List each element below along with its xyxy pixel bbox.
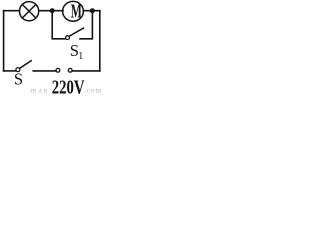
junction node dot left <box>50 8 55 13</box>
svg-text:220V: 220V <box>52 77 85 94</box>
svg-text:man: man <box>31 86 50 95</box>
svg-text:S: S <box>14 70 23 89</box>
switch S blade <box>20 60 32 68</box>
wire left vertical <box>3 11 5 71</box>
switch S pivot circle <box>16 68 20 72</box>
svg-text:M: M <box>71 2 82 23</box>
wire top middle (lamp to motor through node) <box>39 10 63 12</box>
lamp EL1 (circle with X) <box>20 2 39 21</box>
motor circle <box>63 1 84 21</box>
junction node dot right <box>90 8 95 13</box>
wire bottom right <box>72 70 100 72</box>
wire bottom middle (between S and terminal) <box>33 70 56 72</box>
wire top right (motor to corner through node) <box>83 10 100 12</box>
source terminal circle right <box>68 68 72 72</box>
wire bottom left (corner to switch S) <box>4 70 16 72</box>
switch S1 pivot circle <box>66 36 70 40</box>
wire S1-branch left vertical <box>52 12 65 39</box>
svg-text:1: 1 <box>78 51 83 62</box>
switch S1 blade <box>69 28 84 37</box>
wire top-left horizontal <box>4 10 20 12</box>
wire right vertical <box>99 11 101 71</box>
svg-text:.com: .com <box>84 86 102 95</box>
wire S1-branch right side <box>80 12 92 39</box>
source terminal circle left <box>56 68 60 72</box>
